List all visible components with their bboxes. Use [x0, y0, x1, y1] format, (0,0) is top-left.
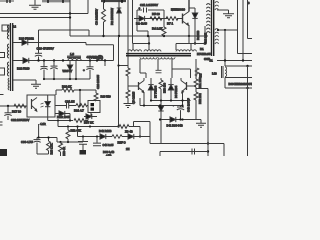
- vertical x=243: [242, 0, 244, 61]
- wire horizontal y=17.5: [0, 17, 70, 19]
- wire y=151.5: [160, 152, 208, 157]
- resistor R4 vertical: [162, 19, 166, 37]
- diode below box: [84, 114, 97, 119]
- small cap at x=158: [156, 70, 162, 73]
- svg-text:+: +: [139, 6, 141, 10]
- resistor x=196 lower: [194, 89, 198, 120]
- T2 right winding bumps: [215, 2, 219, 10]
- T2 left winding bumps: [207, 4, 211, 33]
- box corner lines bottom middle: [134, 122, 151, 144]
- lower opto wire: [48, 117, 88, 137]
- ground symbol top-left: [29, 0, 41, 9]
- svg-text:ZD 4B: ZD 4B: [125, 130, 133, 134]
- wire from bus to primary right: [188, 36, 190, 44]
- main transformer T5 core: [126, 54, 191, 56]
- svg-text:D7 FR104: D7 FR104: [154, 85, 158, 98]
- svg-text:C44 0.85: C44 0.85: [103, 143, 114, 147]
- diode D41: [170, 117, 176, 122]
- T5 primary winding bumps group1: [128, 50, 142, 52]
- wire step from loop down: [137, 19, 148, 37]
- wire: [56, 138, 58, 143]
- svg-text:B1: B1: [200, 47, 204, 51]
- transformer T1 left core: [11, 23, 13, 91]
- inductor L 1.8: [67, 52, 81, 61]
- svg-text:R52 2R2: R52 2R2: [198, 93, 202, 104]
- svg-text:MBR 1045: MBR 1045: [57, 115, 70, 119]
- wire y=60.5 right: [217, 60, 252, 62]
- resistor x=196 upper: [194, 59, 198, 89]
- opto LED: [41, 95, 51, 117]
- svg-text:R4 2.2K: R4 2.2K: [152, 27, 163, 31]
- svg-text:+: +: [173, 104, 175, 108]
- svg-text:C11 2.2U/50V: C11 2.2U/50V: [140, 3, 158, 7]
- vertical wire x=132.5: [132, 0, 134, 44]
- resistor x=197 with label: [195, 68, 199, 76]
- svg-text:R4 3K3: R4 3K3: [196, 30, 200, 40]
- svg-text:R31 4.7: R31 4.7: [74, 109, 84, 113]
- diode 2: [128, 134, 150, 139]
- capacitor C22: [4, 106, 11, 120]
- ground top right: [217, 10, 234, 18]
- svg-text:B1: B1: [210, 58, 214, 62]
- wire emitters: [151, 92, 191, 106]
- cap C30: [33, 138, 40, 155]
- wire y=30 right: [217, 29, 238, 31]
- small connector box: [88, 101, 100, 113]
- zener diode column x=119: [117, 0, 122, 36]
- capacitor branch x=54: [50, 61, 57, 80]
- wire step y=30: [39, 30, 90, 36]
- diode D8 vertical: [168, 78, 173, 101]
- capacitor C40: [173, 104, 185, 120]
- resistor R53 vertical x=60.5: [59, 142, 63, 156]
- diode on x=161 pointing down: [158, 106, 163, 111]
- resistor R vertical x=103.5: [102, 0, 106, 36]
- zener W03 branch x=70: [67, 61, 72, 80]
- wire y=142: [57, 141, 83, 143]
- crystal marks: [192, 149, 195, 155]
- svg-text:REF C: REF C: [118, 141, 126, 145]
- wire vertical x=88: [87, 0, 89, 14]
- dark blob bottom left: [0, 149, 7, 156]
- svg-text:R2 150K/2W: R2 150K/2W: [110, 8, 114, 25]
- svg-text:D88 0.4B: D88 0.4B: [103, 150, 114, 154]
- u-link wire: [172, 69, 191, 78]
- snubber diode column x=195: [189, 8, 198, 44]
- resistor on wire: [112, 135, 122, 139]
- svg-text:D42 R10B: D42 R10B: [99, 129, 112, 133]
- snubber loop C11/D2/R5: [137, 6, 164, 19]
- svg-text:S: S: [248, 1, 250, 5]
- left edge winding stubs: [0, 53, 5, 76]
- svg-text:D2 4148: D2 4148: [136, 22, 147, 26]
- svg-text:D33 MBR20100CT: D33 MBR20100CT: [229, 82, 253, 86]
- cap electrolytic x=83: [78, 137, 88, 151]
- svg-text:+: +: [83, 68, 85, 72]
- resistor R17: [14, 104, 26, 108]
- T5 primary winding bumps group2: [144, 50, 161, 52]
- svg-text:MJE13009: MJE13009: [171, 8, 185, 12]
- junction dots on x=70: [69, 12, 71, 18]
- vertical x=78: [79, 90, 81, 106]
- opto coupler U3 box: [27, 95, 55, 117]
- svg-text:L13: L13: [212, 72, 217, 76]
- svg-text:W03 3V: W03 3V: [63, 69, 73, 73]
- resistor R28 vertical: [94, 90, 98, 101]
- svg-text:L2: L2: [13, 25, 16, 29]
- wire step y=42.5 to 44.8: [39, 43, 114, 61]
- opto right wire with cap: [55, 103, 88, 109]
- svg-text:1.8: 1.8: [70, 52, 74, 56]
- transformer T1 bottom lead to ground: [13, 80, 41, 88]
- resistor R52 vertical x=68: [66, 130, 70, 142]
- vertical x=237.5 with corner: [238, 0, 253, 54]
- diode D20: [13, 40, 70, 45]
- diode D7 vertical: [140, 73, 154, 101]
- branch y=65.5 to resistor: [119, 65, 129, 67]
- branch x=76: [75, 61, 77, 80]
- wire: [139, 98, 141, 106]
- loop circuit bottom left: [37, 124, 57, 154]
- box D33: [225, 78, 252, 89]
- capacitor C27 branch x=44: [40, 61, 47, 80]
- svg-text:C30 4.7U: C30 4.7U: [21, 140, 33, 144]
- ground symbol y=123: [196, 120, 206, 128]
- transformer T1 top stub box: [2, 25, 9, 31]
- vertical x=225: [224, 30, 226, 66]
- T5 primary leads: [133, 44, 191, 51]
- svg-text:4R7: 4R7: [199, 73, 203, 78]
- ground symbol below x=128: [124, 104, 133, 108]
- lower step wire: [133, 36, 149, 48]
- diode D2: [134, 16, 168, 21]
- resistor R38 vertical: [47, 138, 51, 155]
- vertical x=160 segment: [159, 143, 161, 145]
- transistor Q4: [181, 78, 196, 93]
- svg-text:R20 1K: R20 1K: [62, 85, 71, 89]
- svg-text:R17 10: R17 10: [12, 110, 21, 114]
- capacitor C23 branch x=90: [86, 61, 93, 80]
- resistor R20 wire: [56, 88, 96, 95]
- secondary lead taps: [140, 59, 146, 73]
- svg-text:R38 1.5K: R38 1.5K: [49, 143, 53, 154]
- svg-text:+5VSB(紫): +5VSB(紫): [87, 55, 104, 60]
- transformer T1 windings: [7, 25, 9, 90]
- diode D42 wire: [78, 134, 113, 139]
- vertical x=247.5 top with corner: [248, 0, 253, 39]
- wire Q3 emitter: [143, 92, 145, 106]
- resistor R7: [166, 17, 183, 21]
- svg-text:R57 1K: R57 1K: [84, 121, 93, 125]
- top edge component stubs left: [0, 0, 14, 3]
- top edge component stub band center-left: [42, 0, 70, 3]
- svg-text:R50 100: R50 100: [163, 82, 167, 93]
- wire vertical x=38.5 down: [38, 30, 40, 43]
- svg-text:Q5 C1815: Q5 C1815: [132, 91, 136, 104]
- wire into opto left: [0, 105, 27, 107]
- wire: [77, 127, 79, 137]
- resistor R50 vertical x=161: [159, 78, 163, 144]
- diode D22: [13, 58, 114, 63]
- vertical x=247.5 down: [247, 66, 249, 156]
- capacitor C26: [35, 43, 42, 61]
- C13 column: [194, 26, 206, 45]
- svg-text:D22 5819: D22 5819: [17, 67, 30, 71]
- vertical from box down: [90, 113, 92, 117]
- T5 primary winding bumps group3: [176, 50, 196, 52]
- long vertical wire x=118.5: [118, 36, 120, 127]
- svg-text:D41 R30 04B: D41 R30 04B: [167, 124, 183, 128]
- wire: [122, 136, 128, 138]
- ground bus y=79: [44, 78, 90, 80]
- resistor zigzag on D2 wire: [150, 17, 162, 21]
- svg-text:C22 100U/16V: C22 100U/16V: [11, 118, 29, 122]
- branch x=105 small: [104, 61, 106, 67]
- wire y=127.5 with resistor: [58, 125, 140, 137]
- svg-text:R28 510: R28 510: [101, 95, 112, 99]
- wire y=105.5: [140, 105, 183, 107]
- svg-text:R7 1: R7 1: [167, 22, 173, 26]
- wire y=66 right: [225, 65, 252, 67]
- transformer T2 standby core: [212, 0, 214, 56]
- svg-text:C26 47U/50V: C26 47U/50V: [37, 46, 54, 50]
- svg-text:D20 FR302: D20 FR302: [19, 37, 34, 41]
- wire y=119.5: [160, 119, 201, 121]
- wire y=143.5: [150, 144, 224, 157]
- svg-text:C40 100UF: C40 100UF: [187, 98, 191, 112]
- base drive transistor Q3: [128, 78, 144, 93]
- wire: [196, 88, 208, 90]
- svg-text:R53 4R: R53 4R: [62, 147, 66, 156]
- inductor L13: [210, 58, 227, 78]
- long vertical x=208: [207, 89, 209, 157]
- svg-text:2N: 2N: [126, 147, 129, 151]
- top edge component stub band center: [101, 0, 126, 3]
- secondary right lead long: [171, 59, 173, 78]
- cap C44: [93, 137, 101, 146]
- vertical wire x=128 full: [126, 0, 130, 103]
- main horizontal bus y=36: [70, 35, 208, 37]
- diode D6B wire: [55, 111, 70, 121]
- dark mark below cap: [80, 150, 87, 155]
- svg-text:KT-E10.35: KT-E10.35: [197, 52, 211, 56]
- svg-text:4.1R: 4.1R: [40, 122, 46, 126]
- svg-text:R52 47K: R52 47K: [71, 129, 82, 133]
- left edge stub marks: [0, 95, 4, 126]
- svg-text:C23 1000U: C23 1000U: [96, 75, 100, 89]
- svg-text:C9 102/1KV: C9 102/1KV: [95, 9, 99, 25]
- junction dots on bus: [102, 35, 190, 37]
- wire: [58, 121, 68, 131]
- svg-text:4.5A: 4.5A: [106, 154, 112, 157]
- svg-text:D8 FR104: D8 FR104: [174, 85, 178, 98]
- opto phototransistor: [32, 98, 38, 112]
- T5 secondary bumps: [140, 57, 157, 59]
- wire vertical x=70: [69, 0, 71, 36]
- junction dots on +5VSB bus: [37, 59, 106, 61]
- transistor Q1 MJE13009: [183, 0, 190, 36]
- polarity marks: [14, 25, 16, 28]
- wire horizontal bus y=13.5: [0, 13, 88, 15]
- svg-text:R5 39: R5 39: [152, 12, 160, 16]
